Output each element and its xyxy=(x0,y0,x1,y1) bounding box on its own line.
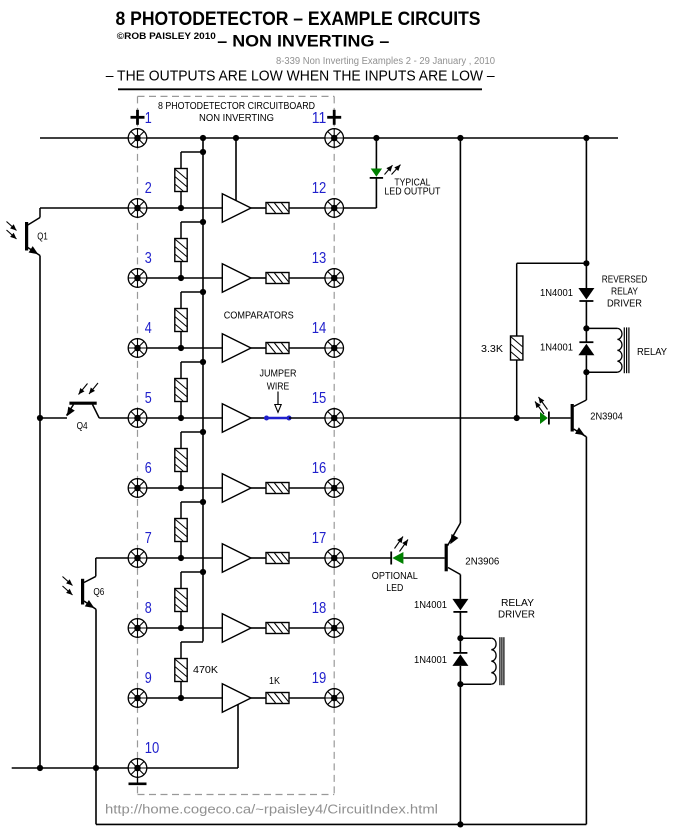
wire to terminal 12 xyxy=(289,207,376,209)
svg-text:WIRE: WIRE xyxy=(267,382,290,393)
terminal 6 xyxy=(128,479,147,498)
wire U5 output xyxy=(251,417,267,419)
svg-text:– NON INVERTING –: – NON INVERTING – xyxy=(217,32,389,51)
comparator U3 xyxy=(222,264,251,293)
terminal 17 xyxy=(325,549,344,568)
wire resistor R7 feed xyxy=(181,572,203,589)
comparator U7 xyxy=(222,544,251,573)
resistor output R14 xyxy=(266,343,289,354)
wire Q6 collector riser xyxy=(95,558,97,576)
svg-text:Q1: Q1 xyxy=(37,231,48,242)
svg-text:2N3904: 2N3904 xyxy=(590,412,623,423)
terminal 10 xyxy=(128,759,147,778)
terminal 11 xyxy=(325,129,344,148)
wire LED to terminal 12 xyxy=(375,178,377,208)
wire U9 output xyxy=(251,697,266,699)
LED emission arrows 2 xyxy=(535,397,548,414)
terminal 9 xyxy=(128,689,147,708)
wire resistor R5 feed xyxy=(181,432,203,449)
LED output indicator xyxy=(540,412,549,425)
svg-text:©ROB PAISLEY 2010: ©ROB PAISLEY 2010 xyxy=(117,31,216,42)
resistor R2 xyxy=(175,239,187,262)
wire resistor R8 feed xyxy=(181,642,203,659)
svg-text:8 PHOTODETECTOR CIRCUITBOARD: 8 PHOTODETECTOR CIRCUITBOARD xyxy=(158,101,315,112)
wire resistor R6 feed xyxy=(181,502,203,519)
wire resistor R4 feed xyxy=(181,362,203,379)
svg-text:LED OUTPUT: LED OUTPUT xyxy=(384,187,440,198)
wire resistor R6 to row 7 xyxy=(180,542,182,559)
terminal 15 xyxy=(325,409,344,428)
svg-text:6: 6 xyxy=(145,460,152,477)
terminal 4 xyxy=(128,339,147,358)
LED emission arrows 3 xyxy=(395,537,409,552)
svg-text:8: 8 xyxy=(145,600,152,617)
transistor Q4 xyxy=(67,383,100,418)
wire LED to Q8 base xyxy=(403,557,444,559)
resistor output R12 xyxy=(266,203,289,214)
wire row 3 xyxy=(138,277,223,279)
wire 3.3K branch xyxy=(517,263,587,336)
wire pull-up feed vertical xyxy=(202,138,204,642)
wire resistor R3 feed xyxy=(181,292,203,309)
wire to terminal 13 xyxy=(289,277,334,279)
LED optional xyxy=(391,552,403,565)
svg-text:– THE OUTPUTS ARE LOW WHEN THE: – THE OUTPUTS ARE LOW WHEN THE INPUTS AR… xyxy=(106,69,496,85)
svg-text:RELAY: RELAY xyxy=(611,287,638,298)
svg-text:DRIVER: DRIVER xyxy=(607,299,642,310)
wire resistor R4 to row 5 xyxy=(180,402,182,419)
transistor Q6 xyxy=(63,576,97,609)
resistor output R13 xyxy=(266,273,289,284)
terminal 5 xyxy=(128,409,147,428)
wire resistor R2 to row 3 xyxy=(180,262,182,279)
wire left vertical xyxy=(39,256,41,769)
svg-text:1N4001: 1N4001 xyxy=(414,655,447,666)
comparator U4 xyxy=(222,334,251,363)
svg-text:1N4001: 1N4001 xyxy=(414,600,447,611)
wire 3.3K to row 15 xyxy=(516,360,518,418)
wire bus to Q8 emitter xyxy=(459,138,461,523)
svg-text:http://home.cogeco.ca/~rpaisle: http://home.cogeco.ca/~rpaisley4/Circuit… xyxy=(105,803,438,817)
wire row 17 to LED xyxy=(334,557,391,559)
transistor Q8 2N3906 xyxy=(446,523,460,575)
svg-text:1K: 1K xyxy=(269,676,280,687)
resistor R8 470K xyxy=(175,659,187,682)
svg-text:8-339 Non Inverting Examples 2: 8-339 Non Inverting Examples 2 - 29 Janu… xyxy=(276,56,495,67)
terminal 14 xyxy=(325,339,344,358)
svg-text:3: 3 xyxy=(145,250,152,267)
svg-text:12: 12 xyxy=(312,180,327,197)
wire relay driver to rail xyxy=(459,684,461,824)
wire resistor R1 to row 2 xyxy=(180,192,182,209)
plus mark terminal 1 xyxy=(131,110,145,125)
heading underline xyxy=(118,88,482,90)
terminal 3 xyxy=(128,269,147,288)
svg-text:DRIVER: DRIVER xyxy=(498,610,535,621)
svg-text:470K: 470K xyxy=(193,665,218,676)
svg-text:OPTIONAL: OPTIONAL xyxy=(372,571,418,582)
comparator U8 xyxy=(222,614,251,643)
wire comparator 2 ref input xyxy=(235,138,237,201)
wire Q6 emitter drop xyxy=(95,609,97,824)
relay coil K1 xyxy=(586,327,629,373)
svg-text:COMPARATORS: COMPARATORS xyxy=(224,311,294,322)
relay coil K2 xyxy=(460,637,504,685)
wire to terminal 19 xyxy=(289,697,334,699)
svg-text:13: 13 xyxy=(312,250,327,267)
svg-text:10: 10 xyxy=(145,740,160,757)
transistor Q7 2N3904 xyxy=(572,400,586,437)
resistor 3.3K xyxy=(511,336,523,360)
wire relay to Q7 collector xyxy=(585,372,587,400)
svg-text:LED: LED xyxy=(386,583,403,594)
svg-text:8 PHOTODETECTOR – EXAMPLE CIRC: 8 PHOTODETECTOR – EXAMPLE CIRCUITS xyxy=(116,8,481,30)
svg-text:1N4001: 1N4001 xyxy=(540,343,573,354)
LED typical output xyxy=(370,169,383,178)
wire D3 to relay xyxy=(459,612,461,638)
svg-text:7: 7 xyxy=(145,530,152,547)
terminal 19 xyxy=(325,689,344,708)
comparator U2 xyxy=(222,194,251,223)
terminal 7 xyxy=(128,549,147,568)
resistor R6 xyxy=(175,519,187,542)
wire to terminal 18 xyxy=(289,627,334,629)
terminal 12 xyxy=(325,199,344,218)
wire resistor R3 to row 4 xyxy=(180,332,182,349)
wire resistor R8 to row 9 xyxy=(180,682,182,699)
resistor R7 xyxy=(175,589,187,612)
diode D3 1N4001 xyxy=(452,599,468,612)
diode D4 1N4001 xyxy=(452,638,468,684)
jumper wire xyxy=(264,416,292,421)
LED emission arrows xyxy=(385,165,401,175)
svg-text:4: 4 xyxy=(145,320,152,337)
wire bus drop right xyxy=(585,138,587,288)
wire resistor R2 feed xyxy=(181,222,203,239)
resistor R1 xyxy=(175,169,187,192)
jumper pointer arrow xyxy=(275,392,281,413)
wire V+ bus xyxy=(40,137,618,139)
svg-text:3.3K: 3.3K xyxy=(481,344,503,355)
svg-text:1: 1 xyxy=(145,110,152,127)
wire to terminal 14 xyxy=(289,347,334,349)
wire row 4 xyxy=(138,347,223,349)
wire Q8 collector xyxy=(459,575,461,599)
terminal 8 xyxy=(128,619,147,638)
wire U7 output xyxy=(251,557,266,559)
transistor Q1 xyxy=(7,208,41,256)
diode D1 1N4001 reversed xyxy=(578,288,594,301)
plus mark terminal 11 xyxy=(327,110,341,125)
comparator U6 xyxy=(222,474,251,503)
wire U2 output xyxy=(251,207,266,209)
terminal 2 xyxy=(128,199,147,218)
wire U6 output xyxy=(251,487,266,489)
wire U9 to row 10 xyxy=(237,705,239,769)
svg-text:2: 2 xyxy=(145,180,152,197)
svg-text:5: 5 xyxy=(145,390,152,407)
terminal 13 xyxy=(325,269,344,288)
wire LED to Q7 base xyxy=(550,417,571,419)
resistor 1K xyxy=(266,693,289,704)
wire U3 output xyxy=(251,277,266,279)
resistor R5 xyxy=(175,449,187,472)
wire U4 output xyxy=(251,347,266,349)
comparator U9 xyxy=(222,684,251,713)
terminal 16 xyxy=(325,479,344,498)
wire row 5 left xyxy=(40,417,67,419)
resistor output R16 xyxy=(266,483,289,494)
terminal 1 xyxy=(128,129,147,148)
svg-text:RELAY: RELAY xyxy=(637,347,667,358)
ground at terminal 10 xyxy=(129,777,147,784)
svg-text:RELAY: RELAY xyxy=(501,598,534,609)
wire resistor R5 to row 6 xyxy=(180,472,182,489)
resistor R3 xyxy=(175,309,187,332)
svg-text:Q6: Q6 xyxy=(93,587,104,598)
svg-text:9: 9 xyxy=(145,670,152,687)
wire resistor R1 feed xyxy=(181,152,203,169)
svg-text:REVERSED: REVERSED xyxy=(602,275,648,286)
svg-text:JUMPER: JUMPER xyxy=(260,369,297,380)
wire row 8 xyxy=(138,627,223,629)
resistor output R18 xyxy=(266,623,289,634)
wire row 9 xyxy=(138,697,223,699)
wire LED drop from bus xyxy=(375,138,377,169)
svg-text:2N3906: 2N3906 xyxy=(465,557,499,568)
svg-text:18: 18 xyxy=(312,600,327,617)
svg-text:NON INVERTING: NON INVERTING xyxy=(199,113,274,124)
svg-text:16: 16 xyxy=(312,460,327,477)
wire to terminal 17 xyxy=(289,557,334,559)
wire jumper to terminal 15 xyxy=(289,417,334,419)
wire row 5 xyxy=(99,417,222,419)
svg-text:1N4001: 1N4001 xyxy=(540,288,573,299)
wire row 10 xyxy=(12,767,238,769)
wire row 2 xyxy=(40,207,222,209)
wire Q7 emitter to rail xyxy=(585,437,587,825)
wire row 15 right xyxy=(334,417,540,419)
dashed board outline xyxy=(138,96,335,794)
wire to terminal 16 xyxy=(289,487,334,489)
wire U8 output xyxy=(251,627,266,629)
wire row 7 left xyxy=(96,557,223,559)
resistor R4 xyxy=(175,379,187,402)
svg-text:Q4: Q4 xyxy=(77,421,88,432)
svg-text:15: 15 xyxy=(312,390,327,407)
resistor output R17 xyxy=(266,553,289,564)
wire row 6 xyxy=(138,487,223,489)
terminal 18 xyxy=(325,619,344,638)
wire bottom rail xyxy=(96,823,586,825)
svg-text:17: 17 xyxy=(312,530,327,547)
comparator U5 xyxy=(222,404,251,433)
wire resistor R7 to row 8 xyxy=(180,612,182,629)
svg-text:19: 19 xyxy=(312,670,327,687)
svg-text:11: 11 xyxy=(312,110,327,127)
diode D2 1N4001 xyxy=(578,328,594,372)
svg-text:14: 14 xyxy=(312,320,327,337)
wire D1 to relay top xyxy=(585,301,587,328)
